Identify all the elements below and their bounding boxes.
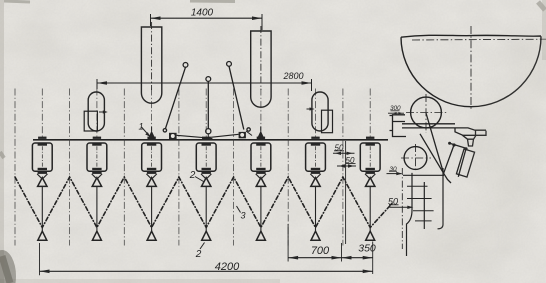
svg-text:1: 1 — [138, 122, 143, 132]
label 3 leader — [237, 206, 241, 213]
mid line 4 — [178, 89, 180, 246]
svg-text:3: 3 — [240, 211, 245, 221]
row unit 2 — [87, 137, 107, 241]
marker rope left top ring — [183, 63, 188, 68]
depth tick 3 — [413, 210, 434, 212]
capsule left bracket — [84, 111, 97, 131]
right clevis block — [239, 132, 246, 138]
tractor rear wheel half disc — [401, 35, 541, 106]
tractor axle line — [412, 38, 546, 41]
gauge wheel v center — [415, 144, 417, 172]
center line unit 4 — [205, 89, 207, 137]
mid line 1 — [14, 89, 16, 246]
marker rope center — [207, 81, 209, 128]
tractor wheel vertical center — [470, 26, 472, 110]
svg-text:50: 50 — [388, 196, 398, 206]
marker rope left bottom ring — [163, 129, 166, 132]
depth tick 4 — [415, 220, 432, 222]
marker tube right center line — [260, 26, 262, 90]
center stem — [207, 134, 209, 138]
gauge wheel h center — [401, 157, 431, 159]
furrow line B — [423, 182, 425, 229]
center line unit 3 — [151, 89, 153, 137]
toolbar main beam — [33, 139, 388, 141]
rope right tail — [246, 131, 252, 136]
marker rope left — [165, 67, 185, 129]
capsule left — [88, 92, 104, 131]
dim 2800 line — [97, 79, 312, 91]
dim 700-350 line — [288, 224, 373, 274]
mid line 7 — [342, 89, 344, 246]
drawbar top line — [402, 123, 455, 125]
depth tick 2 — [407, 198, 432, 200]
mid line 3 — [123, 89, 125, 246]
capsule left arrow — [99, 110, 108, 113]
left clevis block — [169, 133, 177, 139]
marker tube right — [251, 31, 271, 107]
svg-text:50: 50 — [346, 156, 355, 165]
row unit 6 — [306, 137, 326, 241]
center clamp on toolbar — [202, 138, 212, 140]
center line unit 7 — [369, 89, 371, 137]
mid line 5 — [233, 89, 235, 246]
marker tube left — [141, 27, 161, 103]
left clevis pulley — [170, 134, 175, 139]
cone clamp under right tube — [257, 127, 265, 140]
svg-text:2800: 2800 — [282, 71, 303, 81]
dim 50 lower arrow — [337, 164, 356, 168]
capsule right arrow — [307, 107, 315, 110]
capsule right bracket — [322, 110, 333, 133]
link joint 1 — [452, 143, 455, 146]
right clevis pulley — [240, 132, 245, 137]
center line unit 2 — [96, 89, 98, 137]
dim 1400 line — [151, 14, 263, 30]
row unit 7 — [360, 137, 380, 241]
dim 50 upper arrow — [333, 151, 355, 155]
svg-text:2: 2 — [189, 170, 196, 181]
strut from frame — [420, 134, 444, 174]
tilted drum side view — [456, 149, 474, 177]
gauge wheel — [404, 147, 427, 170]
cone clamp under left tube — [148, 127, 156, 140]
rope bar — [177, 134, 239, 138]
link joint 2 — [464, 147, 467, 150]
extension line between drums — [345, 141, 347, 244]
center line unit 6 — [315, 89, 317, 137]
furrow line A — [407, 173, 413, 256]
front wheel h center — [406, 112, 448, 114]
row unit 3 — [142, 137, 162, 241]
marker rope center top ring — [206, 77, 211, 82]
label 1 leader — [142, 127, 151, 137]
lower link arm 2 — [458, 149, 466, 177]
front wheel — [411, 97, 442, 128]
hitch bracket — [390, 115, 407, 137]
link cross bar — [450, 143, 466, 148]
mid line 2 — [69, 89, 71, 246]
row unit 5 — [251, 137, 271, 241]
svg-text:2: 2 — [195, 249, 202, 260]
marker rope center bottom ring — [206, 129, 211, 134]
center line unit 5 — [260, 89, 262, 137]
row unit 1 — [32, 137, 52, 241]
svg-text:700: 700 — [311, 245, 330, 257]
link joint 3 — [448, 142, 451, 145]
mid line 6 — [287, 89, 289, 246]
furrow line C — [438, 168, 444, 229]
capsule right — [312, 92, 328, 131]
marker rope right bottom ring — [247, 128, 250, 131]
svg-text:30: 30 — [389, 166, 397, 173]
label 2 top leader — [195, 177, 204, 182]
svg-text:4200: 4200 — [215, 261, 240, 273]
marker tube left center line — [151, 22, 153, 90]
front wheel v center — [425, 94, 427, 133]
depth center line — [401, 168, 403, 249]
dim 300 arrows — [388, 111, 404, 115]
svg-text:350: 350 — [358, 243, 376, 255]
center line unit 1 — [41, 89, 43, 137]
soil surface line — [403, 174, 444, 176]
strut from wheel center — [426, 113, 444, 173]
dim 50 arrow right — [389, 205, 413, 209]
hitch plate — [455, 128, 486, 146]
row unit 4 — [196, 137, 216, 241]
label 2 bottom leader — [200, 243, 205, 250]
lower link arm 1 — [444, 145, 454, 173]
dim 4200 line — [40, 243, 373, 275]
zigzag seeding track chain — [15, 177, 392, 228]
marker rope right — [229, 66, 244, 129]
dim 30 arrow — [387, 171, 403, 175]
depth tick 1 — [407, 185, 428, 187]
drawbar bottom line — [402, 128, 486, 130]
svg-text:50: 50 — [335, 143, 344, 152]
svg-text:1400: 1400 — [191, 8, 214, 19]
marker rope right top ring — [227, 62, 232, 67]
svg-text:300: 300 — [390, 105, 401, 112]
opener tip — [444, 173, 451, 183]
